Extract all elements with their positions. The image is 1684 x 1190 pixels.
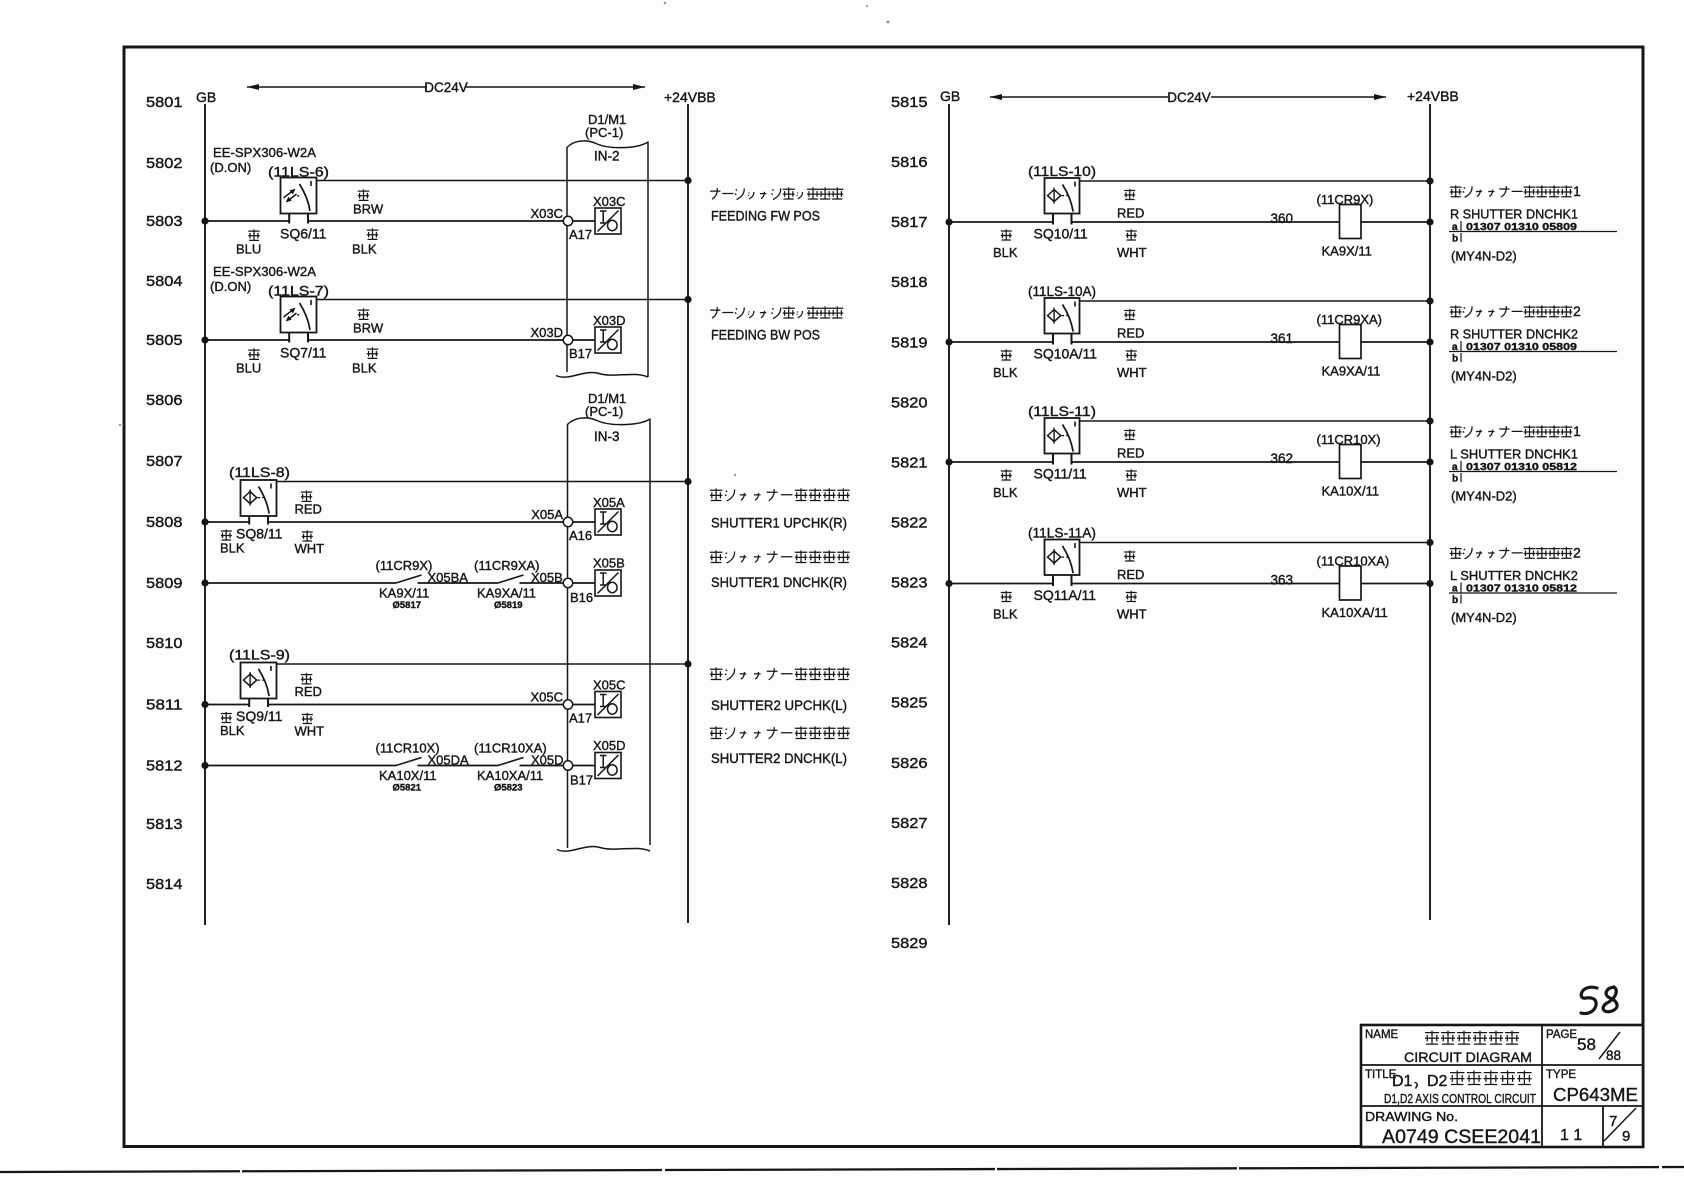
svg-text:R SHUTTER DNCHK2: R SHUTTER DNCHK2 [1450, 327, 1578, 342]
svg-text:L SHUTTER DNCHK1: L SHUTTER DNCHK1 [1450, 447, 1578, 462]
junction GB bus [945, 218, 952, 225]
svg-text:A17: A17 [569, 227, 592, 242]
wire colour red [1124, 189, 1135, 200]
svg-text:+24VBB: +24VBB [664, 89, 716, 105]
svg-text:IN-2: IN-2 [594, 149, 620, 164]
wire colour red [301, 673, 312, 684]
junction GB bus [945, 338, 952, 345]
terminal circle X05C [563, 700, 572, 709]
wire rung to switch [949, 583, 1053, 585]
svg-text:(PC-1): (PC-1) [585, 404, 623, 419]
svg-text:Ø5821: Ø5821 [393, 783, 422, 794]
junction branch/+24VBB [1426, 177, 1433, 184]
wire colour black [221, 529, 232, 540]
wire colour red [1124, 309, 1135, 320]
annotation SHUTTER1 UPCHK(R) [710, 488, 850, 501]
wire colour black [367, 228, 378, 239]
svg-text:(11LS-10): (11LS-10) [1028, 164, 1096, 179]
svg-text:WHT: WHT [295, 541, 325, 556]
svg-text:KA9XA/11: KA9XA/11 [1322, 364, 1381, 379]
bus +24VBB left [687, 104, 689, 923]
junction GB bus [201, 579, 208, 586]
svg-text:(MY4N-D2): (MY4N-D2) [1451, 489, 1517, 504]
wire coil to +24VBB [1361, 461, 1430, 463]
wire switch to coil [1072, 461, 1340, 463]
svg-text:BLK: BLK [993, 365, 1018, 380]
svg-text:5819: 5819 [891, 335, 928, 351]
wire rung [205, 765, 396, 767]
svg-text:+24VBB: +24VBB [1407, 88, 1459, 104]
wire colour white [302, 713, 313, 724]
svg-text:X05C: X05C [593, 678, 626, 693]
svg-text:5816: 5816 [891, 155, 928, 171]
svg-text:5801: 5801 [146, 95, 183, 111]
svg-text:5826: 5826 [891, 756, 928, 772]
relay contact KA10XA/11 (11CR10XA) [498, 758, 524, 766]
svg-text:KA10XA/11: KA10XA/11 [1322, 605, 1388, 620]
wire terminal to I/O [572, 704, 595, 706]
wire colour red [1124, 550, 1135, 561]
wire coil to +24VBB [1361, 341, 1430, 343]
svg-text:KA10X/11: KA10X/11 [379, 768, 437, 783]
svg-text:b: b [1452, 474, 1458, 485]
annotation SHUTTER1 DNCHK(R) [710, 550, 850, 563]
wire [418, 765, 499, 767]
svg-text:A16: A16 [569, 528, 592, 543]
svg-text:KA9X/11: KA9X/11 [379, 586, 429, 601]
junction GB bus [945, 458, 952, 465]
svg-text:L SHUTTER DNCHK2: L SHUTTER DNCHK2 [1450, 568, 1578, 583]
svg-text:7: 7 [1609, 1113, 1617, 1130]
svg-text:SHUTTER2 DNCHK(L): SHUTTER2 DNCHK(L) [711, 751, 847, 766]
svg-text:SQ10/11: SQ10/11 [1034, 226, 1088, 242]
svg-text:TYPE: TYPE [1546, 1069, 1576, 1081]
svg-text:D1,D2 AXIS CONTROL CIRCUIT: D1,D2 AXIS CONTROL CIRCUIT [1384, 1091, 1536, 1106]
svg-text:(11LS-9): (11LS-9) [229, 648, 290, 663]
wire colour brown [358, 189, 369, 200]
junction rung/+24VBB [1426, 218, 1433, 225]
svg-text:5821: 5821 [891, 455, 928, 471]
wire switch to terminal X03D [308, 339, 564, 341]
svg-text:RED: RED [1117, 446, 1144, 461]
svg-text:A0749 CSEE2041: A0749 CSEE2041 [1382, 1127, 1541, 1148]
switch pin stubs [1053, 453, 1072, 465]
wire rung [205, 582, 396, 584]
svg-text:5808: 5808 [146, 515, 183, 531]
terminal circle X05B [563, 578, 572, 587]
svg-text:WHT: WHT [1117, 485, 1147, 500]
svg-text:5824: 5824 [891, 636, 928, 652]
junction GB bus [201, 762, 208, 769]
wire colour black [1001, 349, 1012, 360]
bus GB right [948, 104, 950, 925]
net label DC24V (left) [247, 86, 645, 88]
svg-text:BRW: BRW [353, 202, 384, 217]
terminal circle X05A [563, 517, 572, 526]
svg-text:1: 1 [1573, 183, 1581, 199]
svg-text:SQ11/11: SQ11/11 [1034, 466, 1087, 482]
wire switch to terminal X05C [268, 704, 564, 706]
svg-text:b: b [1452, 595, 1458, 606]
svg-text:PAGE: PAGE [1546, 1029, 1577, 1041]
svg-text:RED: RED [295, 684, 322, 699]
wire colour black [1001, 229, 1012, 240]
svg-text:88: 88 [1606, 1048, 1621, 1063]
bus +24VBB right [1429, 104, 1431, 920]
svg-text:EE-SPX306-W2A: EE-SPX306-W2A [213, 264, 316, 279]
svg-text:CP643ME: CP643ME [1553, 1084, 1638, 1105]
svg-text:X05C: X05C [530, 690, 563, 705]
svg-text:B17: B17 [569, 346, 592, 361]
wire switch to terminal X03C [308, 220, 564, 222]
junction +24VBB bus [684, 660, 691, 667]
svg-text:361: 361 [1271, 331, 1294, 346]
svg-text:SQ9/11: SQ9/11 [236, 708, 283, 724]
svg-text:BLK: BLK [993, 607, 1018, 622]
svg-text:(11CR9XA): (11CR9XA) [474, 558, 540, 573]
wire terminal to I/O [572, 582, 595, 584]
svg-text:WHT: WHT [1117, 365, 1147, 380]
svg-text:2: 2 [1573, 303, 1581, 319]
terminal circle X03D [563, 335, 572, 344]
wire colour white [1126, 349, 1137, 360]
wire colour red [1124, 429, 1135, 440]
title block [1361, 1025, 1643, 1147]
svg-text:SQ7/11: SQ7/11 [280, 345, 327, 361]
svg-text:B17: B17 [570, 773, 593, 788]
branch wire (11LS-6) to +24VBB [316, 180, 688, 182]
svg-text:X03D: X03D [593, 313, 626, 328]
svg-text:B16: B16 [570, 590, 593, 605]
svg-text:SQ10A/11: SQ10A/11 [1034, 346, 1098, 362]
svg-text:5807: 5807 [146, 454, 183, 470]
svg-text:5818: 5818 [891, 275, 928, 291]
junction branch/+24VBB [1426, 297, 1433, 304]
wire switch to terminal X05A [268, 521, 564, 523]
svg-text:360: 360 [1271, 211, 1294, 226]
branch wire (11LS-7) to +24VBB [316, 299, 688, 301]
svg-text:BLU: BLU [236, 361, 261, 376]
annotation SHUTTER2 DNCHK(L) [710, 726, 850, 739]
svg-text:5815: 5815 [891, 95, 928, 111]
svg-text:5817: 5817 [891, 215, 928, 231]
svg-text:DC24V: DC24V [424, 80, 468, 95]
wire terminal to I/O [572, 765, 595, 767]
handwritten page number 58 [1581, 987, 1597, 1013]
switch pin stubs [1053, 333, 1072, 345]
svg-text:DRAWING No.: DRAWING No. [1365, 1110, 1458, 1124]
branch wire (11LS-11A) to +24VBB [1079, 542, 1430, 544]
svg-text:5809: 5809 [146, 576, 183, 592]
svg-text:EE-SPX306-W2A: EE-SPX306-W2A [213, 145, 316, 160]
svg-text:(D.ON): (D.ON) [210, 160, 251, 175]
annotation R SHUTTER DNCHK2 [1450, 305, 1573, 317]
svg-text:362: 362 [1271, 451, 1294, 466]
svg-text:RED: RED [1117, 206, 1144, 221]
svg-text:FEEDING BW POS: FEEDING BW POS [711, 328, 820, 343]
switch pin stubs [249, 516, 268, 525]
wire rung to switch [205, 521, 249, 523]
svg-text:D1: D1 [1392, 1073, 1413, 1090]
junction rung/+24VBB [1426, 338, 1433, 345]
junction GB bus [201, 217, 208, 224]
annotation L SHUTTER DNCHK2 [1450, 547, 1573, 559]
scan artifact line [0, 1167, 1684, 1172]
wire switch to coil [1072, 583, 1340, 585]
svg-text:5814: 5814 [146, 877, 183, 893]
branch wire (11LS-10A) to +24VBB [1079, 300, 1430, 302]
junction rung/+24VBB [1426, 580, 1433, 587]
junction GB bus [201, 518, 208, 525]
svg-text:RED: RED [1117, 326, 1144, 341]
svg-text:9: 9 [1622, 1128, 1630, 1145]
svg-text:5805: 5805 [146, 333, 183, 349]
wire colour white [1126, 591, 1137, 602]
wire coil to +24VBB [1361, 583, 1430, 585]
svg-text:KA10X/11: KA10X/11 [1322, 484, 1380, 499]
relay contact KA9XA/11 (11CR9XA) [498, 575, 524, 583]
svg-text:b: b [1452, 354, 1458, 365]
terminal circle X03C [563, 216, 572, 225]
svg-text:5812: 5812 [146, 759, 183, 775]
wire terminal to I/O [572, 521, 595, 523]
branch wire (11LS-8) to +24VBB [276, 481, 688, 483]
svg-text:BLK: BLK [352, 361, 377, 376]
wire colour black [1001, 591, 1012, 602]
svg-text:SQ11A/11: SQ11A/11 [1034, 587, 1097, 603]
svg-text:363: 363 [1271, 573, 1294, 588]
junction branch/+24VBB [1426, 417, 1433, 424]
svg-text:Ø5817: Ø5817 [393, 600, 422, 611]
svg-text:A17: A17 [569, 711, 592, 726]
svg-text:X05A: X05A [531, 507, 563, 522]
wire [520, 765, 564, 767]
svg-text:5804: 5804 [146, 274, 183, 290]
svg-text:(11LS-11): (11LS-11) [1028, 404, 1096, 419]
svg-text:X03D: X03D [530, 325, 563, 340]
switch pin stubs [1053, 213, 1072, 225]
svg-text:5803: 5803 [146, 214, 183, 230]
wire colour red [301, 490, 312, 501]
svg-text:WHT: WHT [295, 724, 325, 739]
svg-text:5827: 5827 [891, 816, 928, 832]
wire rung to switch [949, 461, 1053, 463]
wire colour black [1001, 469, 1012, 480]
svg-text:SHUTTER2 UPCHK(L): SHUTTER2 UPCHK(L) [711, 698, 847, 713]
svg-text:5820: 5820 [891, 395, 928, 411]
wire coil to +24VBB [1361, 221, 1430, 223]
annotation SHUTTER2 UPCHK(L) [710, 667, 850, 680]
svg-text:58: 58 [1577, 1035, 1596, 1054]
svg-text:5829: 5829 [891, 936, 928, 952]
wire rung to switch [205, 339, 289, 341]
svg-text:(MY4N-D2): (MY4N-D2) [1451, 369, 1517, 384]
junction branch/+24VBB [1426, 539, 1433, 546]
svg-text:SHUTTER1 DNCHK(R): SHUTTER1 DNCHK(R) [711, 575, 847, 590]
bus GB left [204, 104, 206, 925]
annotation FEEDING BW POS [710, 306, 843, 318]
annotation FEEDING FW POS [710, 187, 843, 199]
wire rung to switch [205, 220, 289, 222]
terminal circle X05D [563, 761, 572, 770]
svg-text:FEEDING FW POS: FEEDING FW POS [711, 209, 820, 224]
wire rung to switch [205, 704, 249, 706]
relay contact KA9X/11 (11CR9X) [396, 575, 422, 583]
net label DC24V (right) [990, 96, 1386, 98]
wire rung to switch [949, 341, 1053, 343]
wire rung to switch [949, 221, 1053, 223]
svg-text:5823: 5823 [891, 576, 928, 592]
svg-text:RED: RED [1117, 567, 1144, 582]
svg-text:BLK: BLK [220, 541, 245, 556]
svg-text:SHUTTER1 UPCHK(R): SHUTTER1 UPCHK(R) [711, 516, 847, 531]
svg-text:Ø5823: Ø5823 [494, 783, 523, 794]
junction GB bus [945, 580, 952, 587]
svg-text:DC24V: DC24V [1167, 90, 1211, 105]
svg-text:5810: 5810 [146, 636, 183, 652]
wire terminal to I/O [572, 339, 595, 341]
svg-text:1: 1 [1573, 423, 1581, 439]
branch wire (11LS-10) to +24VBB [1079, 180, 1430, 182]
svg-text:BLK: BLK [352, 242, 377, 257]
switch pin stubs [289, 332, 308, 343]
wire colour black [367, 347, 378, 358]
junction +24VBB bus [684, 177, 691, 184]
wire colour brown [358, 308, 369, 319]
wire [418, 582, 499, 584]
svg-text:1 1: 1 1 [1560, 1127, 1582, 1144]
svg-text:(MY4N-D2): (MY4N-D2) [1451, 249, 1517, 264]
svg-text:GB: GB [940, 88, 960, 104]
svg-text:(PC-1): (PC-1) [585, 125, 623, 140]
svg-text:5802: 5802 [146, 156, 183, 172]
svg-text:BLK: BLK [220, 723, 245, 738]
switch pin stubs [249, 698, 268, 707]
svg-text:BLU: BLU [236, 242, 261, 257]
wire colour white [302, 530, 313, 541]
svg-text:X05A: X05A [593, 495, 625, 510]
junction +24VBB bus [684, 478, 691, 485]
svg-text:SQ6/11: SQ6/11 [280, 226, 327, 242]
svg-text:BRW: BRW [353, 321, 384, 336]
svg-text:2: 2 [1573, 545, 1581, 561]
svg-text:5811: 5811 [146, 698, 183, 714]
svg-text:5822: 5822 [891, 516, 928, 532]
svg-text:NAME: NAME [1365, 1029, 1399, 1041]
svg-text:5825: 5825 [891, 696, 928, 712]
svg-text:CIRCUIT DIAGRAM: CIRCUIT DIAGRAM [1404, 1050, 1532, 1065]
annotation R SHUTTER DNCHK1 [1450, 185, 1573, 197]
annotation L SHUTTER DNCHK1 [1450, 425, 1573, 437]
svg-text:Ø5819: Ø5819 [494, 600, 523, 611]
junction +24VBB bus [684, 296, 691, 303]
svg-text:(11LS-8): (11LS-8) [229, 465, 290, 480]
svg-text:(MY4N-D2): (MY4N-D2) [1451, 610, 1517, 625]
svg-text:WHT: WHT [1117, 245, 1147, 260]
svg-text:KA9XA/11: KA9XA/11 [477, 586, 536, 601]
svg-text:(11LS-11A): (11LS-11A) [1028, 526, 1096, 541]
svg-text:(11LS-10A): (11LS-10A) [1028, 284, 1096, 299]
svg-text:X05B: X05B [593, 556, 625, 571]
wire colour white [1126, 469, 1137, 480]
svg-text:5813: 5813 [146, 817, 183, 833]
wire switch to coil [1072, 221, 1340, 223]
branch wire (11LS-11) to +24VBB [1079, 420, 1430, 422]
svg-text:X03C: X03C [593, 194, 626, 209]
wire [520, 582, 564, 584]
svg-text:R SHUTTER DNCHK1: R SHUTTER DNCHK1 [1450, 207, 1578, 222]
svg-text:(11CR9X): (11CR9X) [376, 558, 433, 573]
wire colour black [221, 712, 232, 723]
switch pin stubs [289, 213, 308, 224]
wire colour blue [248, 229, 259, 240]
svg-text:(D.ON): (D.ON) [210, 279, 251, 294]
svg-text:IN-3: IN-3 [594, 429, 620, 444]
switch pin stubs [1053, 575, 1072, 587]
svg-text:D2: D2 [1427, 1073, 1448, 1090]
relay contact KA10X/11 (11CR10X) [396, 758, 422, 766]
svg-text:X03C: X03C [530, 206, 563, 221]
wire terminal to I/O [572, 220, 595, 222]
svg-text:KA9X/11: KA9X/11 [1322, 244, 1372, 259]
svg-text:SQ8/11: SQ8/11 [236, 526, 283, 542]
svg-text:WHT: WHT [1117, 607, 1147, 622]
svg-text:KA10XA/11: KA10XA/11 [477, 768, 543, 783]
wire switch to coil [1072, 341, 1340, 343]
svg-text:BLK: BLK [993, 485, 1018, 500]
svg-text:X05D: X05D [593, 738, 626, 753]
svg-text:5828: 5828 [891, 876, 928, 892]
branch wire (11LS-9) to +24VBB [276, 663, 688, 665]
svg-text:5806: 5806 [146, 393, 183, 409]
junction GB bus [201, 336, 208, 343]
svg-text:b: b [1452, 234, 1458, 245]
junction rung/+24VBB [1426, 458, 1433, 465]
svg-text:RED: RED [295, 502, 322, 517]
svg-text:GB: GB [196, 89, 216, 105]
junction GB bus [201, 701, 208, 708]
wire colour white [1126, 229, 1137, 240]
wire colour blue [248, 348, 259, 359]
svg-text:BLK: BLK [993, 245, 1018, 260]
